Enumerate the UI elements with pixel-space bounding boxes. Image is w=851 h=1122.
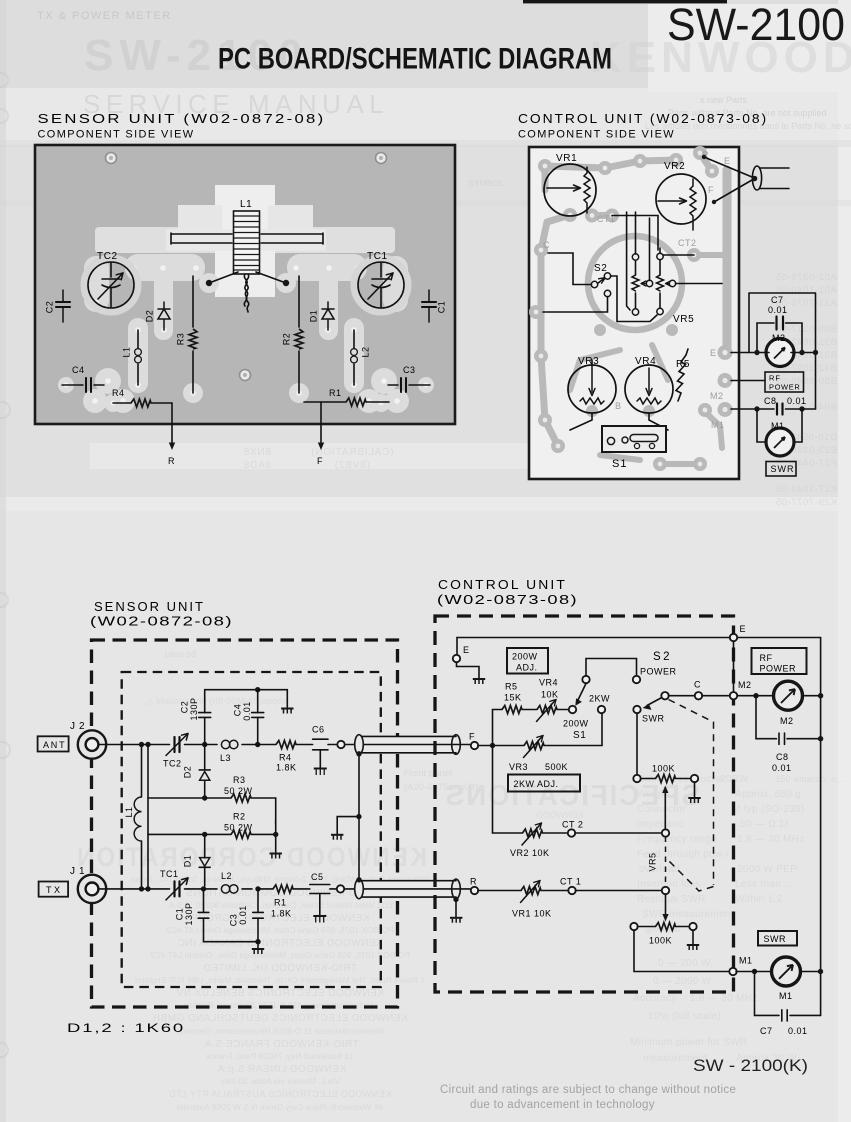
svg-text:L1: L1 bbox=[124, 806, 134, 817]
wire M2 pad to RF POWER bbox=[731, 380, 765, 382]
capacitor C8 row (pcb view) bbox=[731, 404, 816, 415]
svg-text:M2: M2 bbox=[738, 680, 752, 690]
svg-text:10% (full scale): 10% (full scale) bbox=[648, 1011, 721, 1022]
svg-text:D1: D1 bbox=[308, 310, 318, 323]
svg-text:VR4: VR4 bbox=[539, 678, 558, 688]
capacitor C1 bbox=[422, 290, 436, 322]
svg-text:PO BOX 1075, 959 Gana Court, M: PO BOX 1075, 959 Gana Court, Mississauga… bbox=[150, 950, 410, 960]
svg-text:TC2: TC2 bbox=[97, 251, 118, 262]
svg-text:J 1: J 1 bbox=[70, 866, 85, 877]
capacitor C7 loop (pcb view) bbox=[749, 293, 816, 409]
coil L1 loops bbox=[134, 797, 141, 841]
svg-text:KENWOOD ELECTRONICS AUSTRALIA: KENWOOD ELECTRONICS AUSTRALIA PTY LTD bbox=[169, 1089, 392, 1099]
feed-through capacitor C6 bbox=[313, 739, 328, 750]
svg-text:0.01: 0.01 bbox=[787, 396, 807, 406]
SWR panel label box bbox=[766, 462, 796, 477]
svg-text:50 2W: 50 2W bbox=[224, 786, 253, 796]
svg-text:1.8 — 30 MHz,: 1.8 — 30 MHz, bbox=[690, 993, 761, 1004]
pickup transformer L1 primary line bbox=[141, 745, 143, 889]
svg-text:SENSOR UNIT: SENSOR UNIT bbox=[94, 599, 205, 614]
svg-text:due to advancement in technolo: due to advancement in technology bbox=[470, 1099, 655, 1111]
mounting holes bbox=[106, 153, 387, 381]
svg-text:M2: M2 bbox=[772, 333, 786, 343]
svg-text:50 — Ω.ΣΙ: 50 — Ω.ΣΙ bbox=[740, 819, 789, 830]
potentiometer 100K lower (VR5 section b) bbox=[630, 923, 637, 930]
svg-text:R5: R5 bbox=[505, 682, 518, 692]
wire: J1 to TC1 bbox=[98, 888, 169, 890]
trimmer capacitor TC2 bbox=[88, 262, 134, 308]
TX label box bbox=[39, 882, 69, 897]
capacitor C2 bbox=[56, 290, 70, 322]
svg-text:SW-2100: SW-2100 bbox=[667, 0, 845, 50]
M2 row wires/dots bbox=[767, 352, 816, 354]
svg-text:Less than ...: Less than ... bbox=[735, 879, 793, 890]
svg-text:R4: R4 bbox=[112, 388, 125, 398]
R cable shield ground bbox=[453, 897, 458, 902]
switch S2 pivot pin bbox=[661, 692, 668, 699]
top black bar bbox=[523, 0, 727, 3]
ground (100K lower) bbox=[687, 945, 699, 950]
coax connector (pcb top right) bbox=[704, 157, 752, 202]
inductor L2 bbox=[206, 888, 252, 890]
wire to R test point bbox=[171, 403, 173, 446]
svg-text:R1: R1 bbox=[329, 388, 342, 398]
svg-text:C8: C8 bbox=[764, 396, 777, 406]
svg-text:Frequency range: Frequency range bbox=[637, 834, 717, 845]
VR5 gang dashed link bbox=[665, 837, 667, 888]
svg-text:VR1: VR1 bbox=[556, 153, 577, 164]
ground (shield) bbox=[331, 835, 343, 840]
resistor R5 (schematic) bbox=[502, 706, 522, 714]
switch S1 contact 200W bbox=[569, 706, 576, 713]
svg-text:B: B bbox=[615, 401, 622, 411]
capacitor C3 bbox=[257, 889, 259, 912]
svg-text:S1: S1 bbox=[612, 458, 627, 470]
switch S1 wiper arm bbox=[578, 684, 587, 702]
svg-text:A01-1040-05: A01-1040-05 bbox=[775, 285, 837, 296]
svg-text:VR2 10K: VR2 10K bbox=[510, 848, 550, 858]
inductor L1 lead (board small coil) bbox=[137, 330, 139, 385]
ground (R2/R3) bbox=[270, 854, 282, 859]
pin to F coax bbox=[337, 741, 344, 748]
svg-text:50 2W: 50 2W bbox=[224, 823, 253, 833]
svg-text:POWER: POWER bbox=[760, 664, 797, 674]
resistor R4 (board) bbox=[113, 402, 172, 404]
potentiometer VR3 bbox=[568, 365, 616, 413]
capacitor C3 (board) bbox=[388, 378, 430, 392]
wire to F test point bbox=[320, 402, 322, 446]
svg-text:TRIO-KENWOOD UK. LIMITED: TRIO-KENWOOD UK. LIMITED bbox=[203, 963, 357, 974]
svg-text:PC BOARD/SCHEMATIC DIAGRAM: PC BOARD/SCHEMATIC DIAGRAM bbox=[218, 43, 612, 76]
svg-text:CONTROL UNIT (W02-0873-08): CONTROL UNIT (W02-0873-08) bbox=[518, 111, 768, 126]
svg-text:CT 2: CT 2 bbox=[562, 820, 583, 830]
svg-text:M1: M1 bbox=[771, 421, 785, 431]
svg-text:x new Parts: x new Parts bbox=[700, 95, 748, 105]
svg-text:R5: R5 bbox=[676, 359, 690, 370]
trimmer capacitor TC2 (schematic) bbox=[166, 734, 188, 756]
svg-text:VR5: VR5 bbox=[673, 314, 694, 325]
svg-text:C1: C1 bbox=[174, 908, 184, 921]
spec table ghost lines bbox=[630, 774, 845, 1064]
VR5 gray ring bbox=[588, 236, 682, 330]
svg-text:C2: C2 bbox=[179, 701, 189, 714]
svg-text:M1: M1 bbox=[739, 956, 753, 966]
ground (top rail) bbox=[286, 690, 288, 708]
svg-text:RF: RF bbox=[769, 374, 781, 383]
svg-text:SWR: SWR bbox=[764, 934, 787, 944]
svg-text:TX & POWER METER: TX & POWER METER bbox=[37, 10, 172, 22]
svg-text:350 emarco. o...: 350 emarco. o... bbox=[775, 774, 845, 784]
svg-text:Circuit and ratings are subjec: Circuit and ratings are subject to chang… bbox=[440, 1084, 736, 1096]
svg-text:M typ (SO-239): M typ (SO-239) bbox=[732, 804, 805, 815]
svg-text:0 — 200 W,: 0 — 200 W, bbox=[658, 958, 713, 969]
slide switch S1 (board) bbox=[602, 426, 666, 452]
svg-text:F: F bbox=[317, 456, 323, 466]
svg-text:M1: M1 bbox=[711, 420, 725, 430]
svg-text:R3: R3 bbox=[233, 775, 246, 785]
svg-text:(W02-0873-08): (W02-0873-08) bbox=[437, 592, 578, 607]
ground (C1/C3) bbox=[252, 949, 264, 954]
svg-text:SWR: SWR bbox=[642, 714, 665, 724]
svg-text:46 Wadsworth Place Cary Grove: 46 Wadsworth Place Cary Grove N.S.W 2066… bbox=[176, 1102, 383, 1112]
svg-text:L3: L3 bbox=[220, 753, 231, 763]
svg-text:Residual SWR: Residual SWR bbox=[637, 894, 706, 905]
wire E pin down to M2 pin bbox=[733, 641, 735, 692]
svg-text:CONTROL UNIT: CONTROL UNIT bbox=[438, 577, 567, 592]
capacitor C4 (board) bbox=[62, 378, 104, 392]
slide switch S2 (board) bbox=[598, 278, 606, 284]
meter M1 (schematic) bbox=[755, 971, 771, 973]
svg-text:CT 1: CT 1 bbox=[560, 877, 581, 887]
dual potentiometer VR5 internals bbox=[632, 260, 671, 310]
svg-text:0.01: 0.01 bbox=[772, 763, 792, 773]
top rail wire bbox=[205, 689, 288, 691]
RF POWER panel label box bbox=[765, 372, 804, 392]
svg-text:8AD8: 8AD8 bbox=[243, 460, 271, 471]
svg-text:A02-0379-05: A02-0379-05 bbox=[775, 272, 837, 283]
svg-text:L1: L1 bbox=[121, 346, 131, 357]
svg-text:△ Maxima stirl (d8-00M-10)apq: △ Maxima stirl (d8-00M-10)apqda bbox=[146, 696, 289, 707]
svg-text:Via L. Manara via Adda, 20 Ita: Via L. Manara via Adda, 20 Italy bbox=[219, 1076, 340, 1086]
variable resistor VR2 bbox=[493, 832, 523, 834]
svg-text:C8: C8 bbox=[776, 752, 789, 762]
F cable shield ground run bbox=[358, 754, 360, 880]
svg-text:L2: L2 bbox=[360, 346, 370, 357]
capacitor C7 bypass loop bbox=[755, 972, 821, 1016]
svg-text:500K: 500K bbox=[545, 762, 568, 772]
ground (100K upper) bbox=[688, 798, 700, 803]
E pin stub and ground (left) bbox=[456, 638, 458, 655]
coax cable R (sensor to control) bbox=[345, 879, 470, 899]
sensor board outline bbox=[35, 145, 455, 424]
switch S2 wiper arm bbox=[647, 698, 662, 706]
svg-text:C5: C5 bbox=[311, 872, 324, 882]
svg-text:Connector: Connector bbox=[637, 804, 686, 815]
svg-text:C: C bbox=[694, 680, 701, 690]
svg-text:J 2: J 2 bbox=[70, 721, 85, 732]
svg-text:R2: R2 bbox=[233, 812, 246, 822]
svg-text:ADJ.: ADJ. bbox=[516, 663, 538, 673]
diode D2 bbox=[204, 745, 206, 770]
svg-text:D1,2 : 1K60: D1,2 : 1K60 bbox=[67, 1021, 185, 1035]
svg-text:(W02-0872-08): (W02-0872-08) bbox=[90, 614, 233, 629]
svg-text:2KW: 2KW bbox=[589, 694, 610, 704]
through line (x=148) bbox=[147, 745, 149, 889]
CONTROL-PCB-LAYER bbox=[529, 146, 818, 479]
variable resistor VR1 bbox=[478, 890, 521, 892]
svg-text:100K: 100K bbox=[649, 936, 672, 946]
svg-text:C3: C3 bbox=[403, 365, 416, 375]
node dots on antenna line bbox=[139, 742, 144, 747]
switch S2 contact POWER bbox=[633, 676, 640, 683]
2KW ADJ. label box bbox=[508, 775, 580, 792]
ground (C5) bbox=[313, 916, 326, 923]
VR5 upper gang junction bbox=[662, 829, 669, 836]
copper trace pattern (light) bbox=[58, 185, 434, 413]
svg-text:C3: C3 bbox=[228, 914, 238, 927]
svg-text:Front panel: Front panel bbox=[404, 768, 452, 779]
svg-text:SYMBOL: SYMBOL bbox=[468, 179, 504, 188]
svg-text:8NX8: 8NX8 bbox=[243, 447, 271, 458]
capacitor C2 bbox=[204, 717, 206, 744]
svg-text:ANT: ANT bbox=[43, 740, 66, 750]
svg-text:Accuracy: Accuracy bbox=[633, 993, 677, 1004]
svg-text:L1: L1 bbox=[240, 199, 252, 210]
big mirrored KENWOOD CORPORATION bbox=[75, 842, 427, 872]
meter M1 (pcb view) bbox=[757, 409, 802, 442]
potentiometer VR4 bbox=[625, 365, 673, 413]
svg-text:POWER: POWER bbox=[769, 383, 800, 392]
sensor pcb inner dashed boundary bbox=[122, 672, 381, 987]
potentiometer VR1 bbox=[544, 164, 596, 216]
svg-text:E: E bbox=[740, 624, 747, 634]
silk legends gray bbox=[543, 150, 731, 430]
binder hole marks on left edge bbox=[0, 73, 10, 1057]
diode D1 bbox=[204, 834, 206, 857]
svg-text:1.8K: 1.8K bbox=[271, 909, 292, 919]
coax cable F (sensor to control) bbox=[345, 735, 470, 755]
svg-text:0.01: 0.01 bbox=[788, 1026, 808, 1036]
inductor L2 lead (board small coil) bbox=[353, 330, 355, 385]
svg-text:pass sd: pass sd bbox=[165, 649, 196, 659]
feed-through capacitor C5 bbox=[310, 885, 330, 894]
svg-text:Within 1.2: Within 1.2 bbox=[735, 894, 783, 905]
board hookup wires bbox=[543, 212, 722, 430]
SCHEMA-SENSOR-LAYER bbox=[38, 599, 470, 1035]
svg-text:VR4: VR4 bbox=[635, 356, 656, 367]
svg-text:D2: D2 bbox=[144, 310, 154, 323]
svg-text:C7: C7 bbox=[760, 1026, 773, 1036]
svg-text:TX: TX bbox=[46, 885, 63, 895]
svg-text:R1: R1 bbox=[274, 898, 287, 908]
svg-text:C4: C4 bbox=[232, 704, 242, 717]
meter M2 (schematic) bbox=[738, 695, 754, 697]
mirrored address lines column bbox=[131, 874, 429, 1112]
variable resistor VR3 bbox=[493, 745, 525, 747]
inductor L3 bbox=[207, 744, 276, 746]
svg-text:C4: C4 bbox=[72, 365, 85, 375]
gray pads bbox=[529, 146, 733, 471]
svg-text:C: C bbox=[543, 240, 550, 250]
svg-text:KENWOOD ELECTRONICS DEUTSCHLAN: KENWOOD ELECTRONICS DEUTSCHLAND GMBH bbox=[152, 1013, 407, 1024]
svg-text:L2: L2 bbox=[221, 871, 232, 881]
svg-text:0.01: 0.01 bbox=[242, 701, 252, 721]
svg-text:R: R bbox=[168, 456, 175, 466]
svg-text:TRIO-KENWOOD FRANCE S.A.: TRIO-KENWOOD FRANCE S.A. bbox=[201, 1039, 359, 1050]
svg-text:130P: 130P bbox=[184, 902, 194, 925]
svg-text:M1: M1 bbox=[779, 991, 793, 1001]
svg-text:C6: C6 bbox=[312, 725, 325, 735]
capacitor C4 bbox=[257, 690, 259, 713]
svg-text:2000 W PEP: 2000 W PEP bbox=[737, 864, 797, 875]
capacitor C8 bypass loop bbox=[756, 696, 821, 739]
svg-text:2KW ADJ.: 2KW ADJ. bbox=[514, 779, 559, 789]
svg-text:0.01: 0.01 bbox=[238, 905, 248, 925]
svg-text:COMPONENT SIDE VIEW: COMPONENT SIDE VIEW bbox=[38, 129, 195, 141]
svg-text:CT2: CT2 bbox=[678, 238, 697, 248]
svg-text:VR3: VR3 bbox=[578, 356, 599, 367]
pin to R coax bbox=[337, 885, 344, 892]
potentiometer 100K upper (VR5 section a) bbox=[636, 713, 638, 775]
svg-text:TC2: TC2 bbox=[163, 759, 182, 769]
potentiometer VR2 bbox=[656, 174, 706, 230]
svg-text:M2: M2 bbox=[780, 716, 794, 726]
coil L1 (pickup transformer) bbox=[234, 199, 260, 274]
svg-text:RF: RF bbox=[760, 653, 773, 663]
svg-text:VR2: VR2 bbox=[664, 161, 685, 172]
resistor R2 (schematic) bbox=[148, 833, 231, 835]
svg-text:VR1 10K: VR1 10K bbox=[512, 909, 552, 919]
ANT label box bbox=[38, 736, 69, 751]
VR5 lower gang junction bbox=[662, 887, 669, 894]
resistor R1 (schematic) bbox=[258, 888, 273, 890]
ground (C6) bbox=[314, 769, 327, 776]
svg-text:C2: C2 bbox=[44, 301, 54, 314]
svg-text:F: F bbox=[708, 185, 714, 195]
200W ADJ. label box bbox=[507, 648, 548, 674]
RF POWER panel box bbox=[752, 648, 807, 674]
svg-text:Minimum power for SWR: Minimum power for SWR bbox=[630, 1037, 747, 1048]
svg-text:D1: D1 bbox=[182, 855, 192, 868]
svg-text:S2: S2 bbox=[653, 651, 672, 663]
svg-text:TC1: TC1 bbox=[160, 869, 179, 879]
SENSOR-PCB-LAYER bbox=[35, 145, 455, 466]
svg-text:VR5: VR5 bbox=[647, 852, 657, 871]
switch S1 contact 2KW bbox=[598, 706, 605, 713]
svg-text:R4: R4 bbox=[279, 753, 292, 763]
svg-text:S1: S1 bbox=[573, 730, 586, 741]
wire F node up to R5 row bbox=[493, 710, 503, 746]
svg-text:KENWOOD ELECTRONICS CANADA INC: KENWOOD ELECTRONICS CANADA INC bbox=[177, 938, 383, 949]
mechanical link dashed (S2 to VR5) bbox=[666, 700, 714, 892]
wire F node down to CT2 row bbox=[492, 746, 494, 834]
svg-text:C7: C7 bbox=[771, 295, 784, 305]
svg-text:COMPONENT SIDE VIEW: COMPONENT SIDE VIEW bbox=[518, 129, 675, 141]
svg-text:Impedanc: Impedanc bbox=[637, 819, 683, 830]
svg-text:E: E bbox=[710, 348, 717, 358]
resistor R5 (board, diagonal) bbox=[676, 349, 688, 401]
svg-text:POWER: POWER bbox=[640, 667, 677, 677]
switch S2 contact SWR bbox=[633, 706, 640, 713]
svg-text:(8VB2): (8VB2) bbox=[334, 460, 370, 471]
svg-text:KENWOOD CORPORATION: KENWOOD CORPORATION bbox=[75, 842, 427, 872]
svg-text:10K: 10K bbox=[541, 690, 559, 700]
E bus wire across top bbox=[457, 637, 821, 639]
wire 100K lower to M1 bbox=[634, 930, 729, 972]
mid ghost table row bbox=[243, 447, 394, 471]
mirrored SPECIFICATIONS bbox=[444, 780, 700, 820]
svg-text:Approx. 850 g: Approx. 850 g bbox=[735, 789, 801, 800]
control board outline bbox=[529, 147, 739, 479]
resistor R4 (schematic) bbox=[276, 741, 296, 749]
resistor R2 (board) bbox=[298, 276, 300, 393]
svg-text:M2: M2 bbox=[710, 391, 724, 401]
svg-text:1.8K: 1.8K bbox=[276, 763, 297, 773]
svg-text:200W: 200W bbox=[512, 652, 538, 662]
svg-text:R2: R2 bbox=[281, 333, 291, 346]
control unit dashed boundary bbox=[435, 616, 734, 992]
svg-text:C1: C1 bbox=[436, 301, 446, 314]
svg-text:SW - 2100(K): SW - 2100(K) bbox=[693, 1057, 808, 1075]
svg-text:15K: 15K bbox=[504, 693, 522, 703]
svg-text:SENSOR UNIT (W02-0872-08): SENSOR UNIT (W02-0872-08) bbox=[38, 111, 326, 126]
wire S1 wiper to S2 POWER contact bbox=[586, 659, 637, 676]
svg-text:S2: S2 bbox=[594, 263, 607, 274]
svg-text:13 Boulevard Ney, 75018 Paris,: 13 Boulevard Ney, 75018 Paris, France bbox=[206, 1051, 354, 1061]
trimmer capacitor TC1 bbox=[358, 262, 404, 308]
svg-text:100K: 100K bbox=[652, 764, 675, 774]
svg-text:200W: 200W bbox=[563, 719, 589, 729]
wire pivot to C and M2 bbox=[669, 695, 696, 697]
svg-text:K27-3043-05: K27-3043-05 bbox=[775, 484, 837, 495]
SWR panel box bbox=[758, 931, 797, 946]
svg-text:SWR: SWR bbox=[771, 464, 795, 474]
diode D1 (board) bbox=[322, 302, 334, 330]
meter M2 (pcb view) bbox=[766, 339, 794, 367]
svg-text:D2: D2 bbox=[182, 766, 192, 779]
svg-text:F: F bbox=[469, 732, 475, 742]
svg-text:0 — 2000 W: 0 — 2000 W bbox=[653, 976, 712, 987]
diode D2 (board) bbox=[158, 302, 170, 330]
svg-text:KENWOOD LINEAR S.p.A.: KENWOOD LINEAR S.p.A. bbox=[214, 1064, 346, 1075]
svg-text:K29-7077-05: K29-7077-05 bbox=[775, 497, 837, 508]
resistor R3 (board) bbox=[192, 276, 194, 393]
wire: J2 to TC2 bbox=[98, 744, 169, 746]
right part-number ghost column (mirrored bleed-through) bbox=[775, 272, 837, 508]
svg-text:130P: 130P bbox=[189, 697, 199, 720]
svg-text:0.01: 0.01 bbox=[768, 305, 788, 315]
svg-text:R3: R3 bbox=[175, 333, 185, 346]
VR5 lower wiper arrow bbox=[665, 894, 667, 915]
wire E pad to meter loop bbox=[731, 352, 766, 354]
trimmer capacitor TC1 (schematic) bbox=[166, 878, 188, 900]
VR5 upper wiper arrow bbox=[664, 791, 666, 830]
ground (R shield) bbox=[450, 918, 462, 923]
svg-text:Rembrandtstrasse 11 D-6056 Heu: Rembrandtstrasse 11 D-6056 Heusenstamm, … bbox=[175, 1026, 383, 1036]
svg-text:KENWOOD: KENWOOD bbox=[536, 810, 584, 820]
svg-text:1.8 — 30 MHz: 1.8 — 30 MHz bbox=[737, 834, 805, 845]
ground (E stub) bbox=[473, 679, 485, 684]
svg-text:TC1: TC1 bbox=[367, 251, 388, 262]
svg-text:PO BOX 1075, 959 Gana Court, M: PO BOX 1075, 959 Gana Court, Mississauga… bbox=[166, 925, 394, 935]
capacitor C1 bbox=[203, 889, 205, 912]
svg-text:KENWOOD ELECTRONICS BENELUX NV: KENWOOD ELECTRONICS BENELUX NV bbox=[176, 988, 384, 999]
variable resistor VR4 bbox=[537, 706, 557, 714]
twisted pair tail bbox=[244, 274, 248, 312]
svg-text:R: R bbox=[470, 877, 477, 887]
svg-text:VR3: VR3 bbox=[509, 762, 528, 772]
svg-text:SWR measurement: SWR measurement bbox=[642, 909, 734, 920]
